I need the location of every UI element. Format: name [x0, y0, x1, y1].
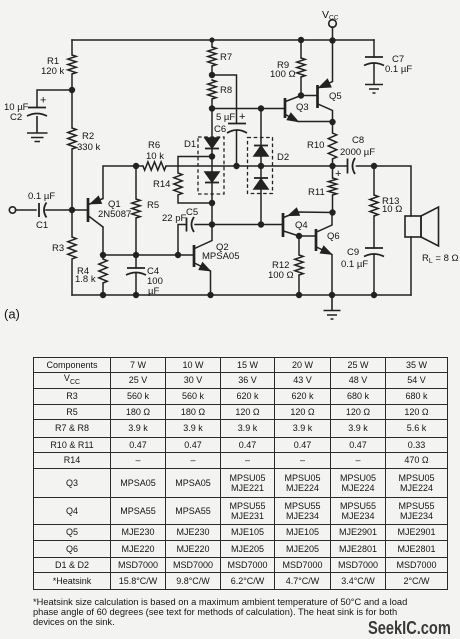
- svg-text:RL = 8 Ω: RL = 8 Ω: [422, 253, 459, 265]
- svg-text:330 k: 330 k: [77, 142, 100, 153]
- svg-text:+: +: [335, 168, 341, 180]
- svg-text:R7: R7: [220, 52, 232, 63]
- svg-text:10 Ω: 10 Ω: [382, 204, 402, 215]
- svg-text:(a): (a): [4, 307, 20, 322]
- svg-text:0.1 µF: 0.1 µF: [341, 259, 368, 270]
- svg-text:+: +: [40, 95, 46, 107]
- svg-text:R11: R11: [308, 187, 325, 198]
- svg-text:+: +: [239, 111, 245, 123]
- svg-text:R14: R14: [153, 179, 170, 190]
- svg-text:C5: C5: [186, 207, 198, 218]
- svg-text:C2: C2: [10, 112, 22, 123]
- svg-text:22 pF: 22 pF: [162, 213, 186, 224]
- svg-text:R8: R8: [220, 85, 232, 96]
- svg-text:MPSA05: MPSA05: [202, 251, 240, 262]
- svg-text:C1: C1: [36, 220, 48, 231]
- svg-text:R5: R5: [147, 200, 159, 211]
- svg-text:Q5: Q5: [329, 91, 342, 102]
- svg-text:Q4: Q4: [295, 220, 308, 231]
- svg-text:0.1 µF: 0.1 µF: [28, 191, 55, 202]
- svg-text:µF: µF: [148, 286, 159, 297]
- svg-text:D2: D2: [277, 152, 289, 163]
- svg-text:R10: R10: [307, 140, 324, 151]
- svg-text:1.8 k: 1.8 k: [75, 274, 96, 285]
- svg-text:Q6: Q6: [327, 231, 340, 242]
- svg-text:C9: C9: [347, 247, 359, 258]
- svg-text:5 µF: 5 µF: [216, 112, 235, 123]
- svg-text:100 Ω: 100 Ω: [270, 69, 296, 80]
- svg-text:10 k: 10 k: [146, 151, 164, 162]
- svg-text:2N5087: 2N5087: [98, 209, 131, 220]
- svg-text:VCC: VCC: [322, 9, 339, 22]
- svg-text:100 Ω: 100 Ω: [268, 270, 294, 281]
- svg-text:R2: R2: [82, 131, 94, 142]
- svg-text:0.1 µF: 0.1 µF: [385, 64, 412, 75]
- svg-text:Q3: Q3: [296, 102, 309, 113]
- svg-text:R3: R3: [52, 243, 64, 254]
- svg-text:D1: D1: [184, 139, 196, 150]
- svg-text:120 k: 120 k: [41, 66, 64, 77]
- svg-text:2000 µF: 2000 µF: [340, 147, 375, 158]
- svg-text:C6: C6: [214, 124, 226, 135]
- svg-text:C8: C8: [352, 135, 364, 146]
- svg-text:R6: R6: [148, 140, 160, 151]
